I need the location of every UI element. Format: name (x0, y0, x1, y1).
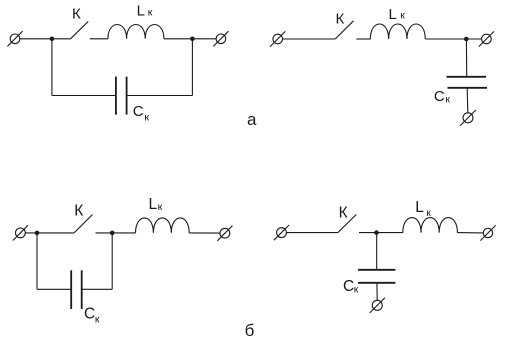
svg-text:С: С (133, 103, 144, 120)
svg-text:L: L (389, 6, 397, 23)
svg-text:L: L (415, 199, 424, 216)
svg-text:С: С (84, 306, 95, 323)
svg-text:К: К (72, 6, 81, 23)
svg-text:к: к (148, 6, 153, 18)
svg-text:С: С (343, 278, 354, 295)
svg-text:к: к (445, 94, 450, 106)
svg-text:к: к (400, 9, 405, 21)
svg-text:К: К (336, 10, 345, 27)
svg-text:к: к (426, 207, 431, 219)
svg-text:к: к (158, 201, 163, 213)
svg-text:L: L (149, 196, 158, 213)
svg-text:К: К (339, 204, 348, 221)
svg-text:L: L (137, 2, 145, 19)
svg-text:б: б (245, 321, 255, 340)
svg-text:к: к (95, 313, 100, 325)
svg-text:К: К (74, 202, 83, 219)
svg-text:к: к (354, 284, 359, 296)
svg-text:С: С (434, 88, 445, 105)
svg-text:к: к (144, 112, 149, 124)
svg-text:а: а (247, 110, 257, 129)
